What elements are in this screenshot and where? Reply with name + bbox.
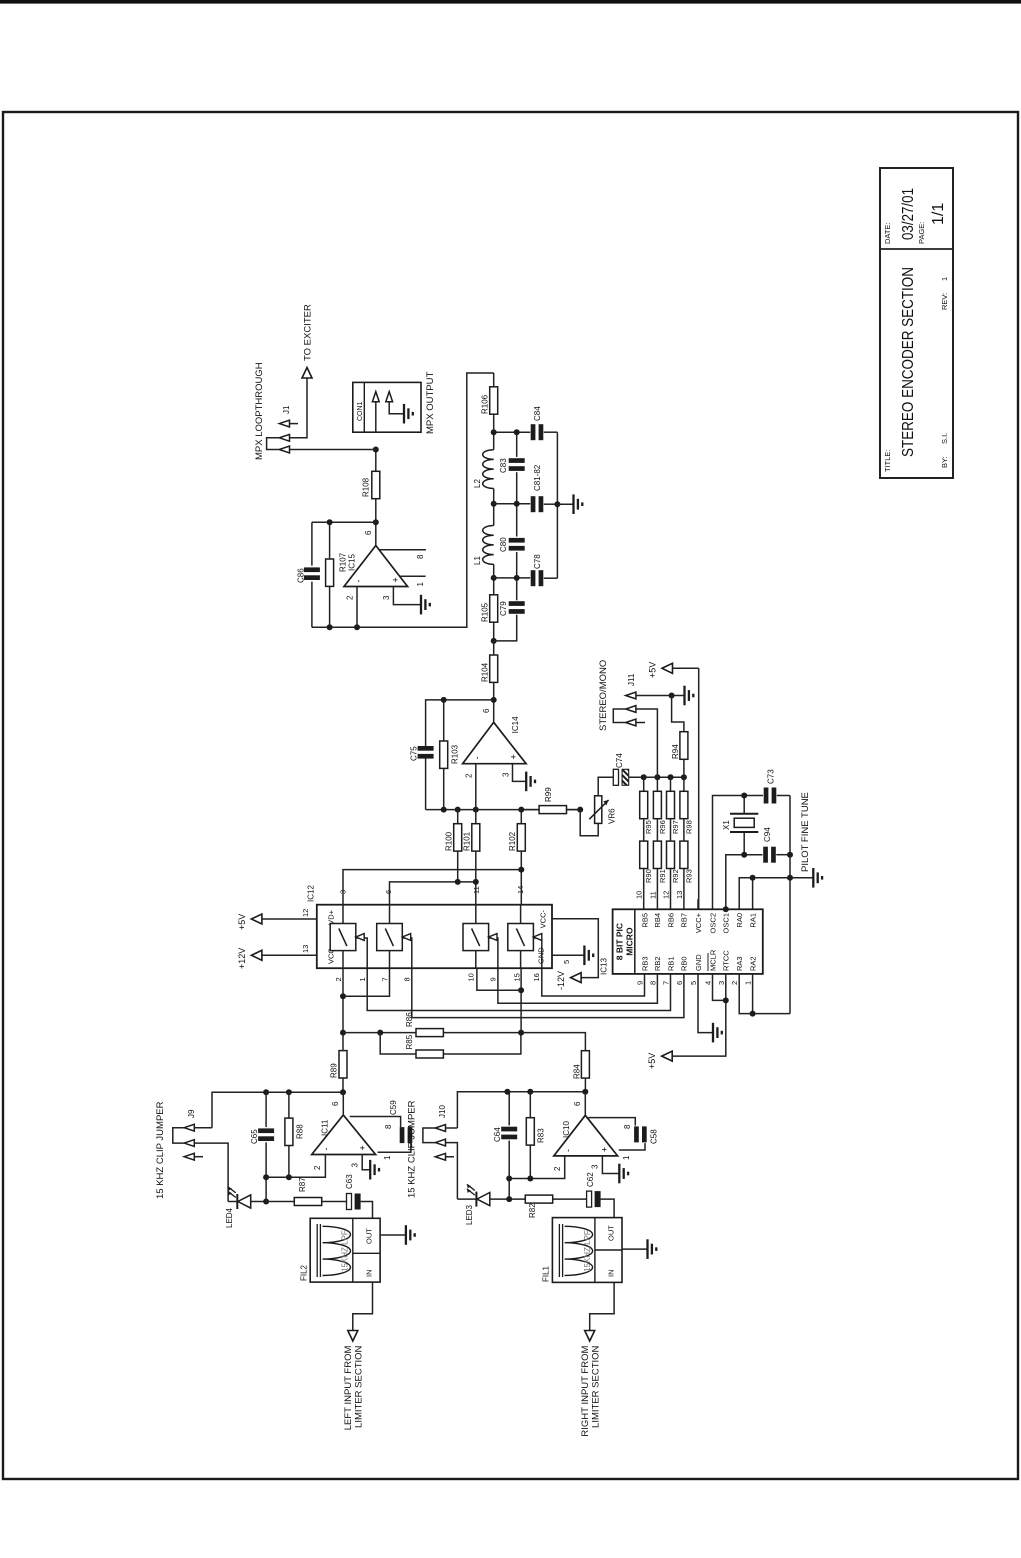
svg-text:16: 16 [532, 973, 541, 981]
wire J9 pin2 to LED row [194, 1143, 228, 1201]
svg-text:6: 6 [364, 530, 373, 535]
resistor R98 [683, 777, 685, 791]
svg-text:1: 1 [744, 981, 753, 985]
svg-text:15 KHZ CLIP JUMPER: 15 KHZ CLIP JUMPER [155, 1101, 166, 1199]
svg-text:J10: J10 [438, 1105, 447, 1118]
svg-text:15KHZ LPF: 15KHZ LPF [341, 1230, 350, 1272]
junction R107 right [327, 519, 333, 525]
svg-text:IC14: IC14 [511, 716, 520, 733]
wire IC10 pin 3 [602, 1156, 619, 1174]
IC13 box [613, 909, 763, 974]
svg-text:14: 14 [516, 886, 525, 894]
FIL1 coil icon [558, 1224, 560, 1277]
svg-text:OUT: OUT [365, 1228, 374, 1244]
svg-text:TO EXCITER: TO EXCITER [303, 304, 314, 361]
svg-text:C75: C75 [410, 746, 419, 761]
svg-text:R88: R88 [296, 1124, 305, 1139]
wire VR6 to C74 rail [598, 777, 613, 796]
wire IC14 pin 3 [513, 764, 527, 782]
wire summing to R84 [521, 1033, 585, 1051]
svg-text:R90: R90 [644, 869, 653, 883]
wire IC14 pin 2 [475, 764, 477, 810]
junction node D [491, 638, 497, 644]
FIL1 filter box [552, 1218, 622, 1283]
resistor R107 [329, 587, 331, 628]
capacitor C94 [763, 847, 768, 863]
wire +5V rail to IC13 [698, 668, 700, 909]
inductor L2 [493, 489, 495, 504]
wire IC14 feedback rail right [426, 700, 494, 746]
resistor R87 [294, 1198, 321, 1206]
wire IC11 pin 3 [362, 1155, 370, 1170]
wire OSC2 to crystal node [713, 796, 764, 910]
svg-text:DATE:: DATE: [883, 222, 892, 244]
ground crystal section [812, 868, 814, 888]
svg-text:6: 6 [331, 1101, 340, 1106]
wire IC10 pin 1 stub [619, 1143, 645, 1150]
LED4 [236, 1194, 238, 1209]
svg-text:IC12: IC12 [307, 885, 316, 902]
wire CON1 pin2 to ground [389, 402, 404, 414]
wire R82 to C62 [553, 1198, 587, 1200]
svg-text:R84: R84 [573, 1064, 582, 1079]
junction C64 rail [504, 1089, 510, 1095]
wire RA0 RA1 ground line [739, 878, 813, 910]
svg-text:X1: X1 [722, 820, 731, 830]
wire IC14 inverting rail [426, 809, 581, 811]
wire IC11 pin 1 stub [378, 1143, 411, 1153]
resistor R85 [380, 1033, 415, 1054]
svg-text:1: 1 [383, 1155, 392, 1160]
switch SW3 stubs [475, 951, 477, 969]
svg-text:3: 3 [591, 1164, 600, 1169]
svg-text:RB0: RB0 [680, 956, 689, 971]
resistor R83 [529, 1145, 531, 1178]
svg-text:RTCC: RTCC [722, 950, 731, 971]
wire inv rail to LED row [265, 1177, 267, 1201]
junction pin2 rail [354, 624, 360, 630]
svg-text:13: 13 [675, 891, 684, 899]
svg-text:R94: R94 [671, 744, 680, 759]
svg-text:R104: R104 [481, 662, 490, 682]
wire C75 left lead [425, 758, 427, 809]
wire FIL2 IN to input arrow [353, 1282, 373, 1331]
svg-text:9: 9 [636, 981, 645, 985]
wire IC15 output to node [375, 522, 377, 545]
junction R100 riser [455, 879, 461, 885]
svg-text:RB3: RB3 [640, 956, 649, 971]
resistor R89 [342, 1049, 344, 1051]
svg-text:LEFT INPUT FROM: LEFT INPUT FROM [343, 1346, 354, 1431]
wire IC12 pin15 line [520, 968, 522, 1032]
svg-text:RB7: RB7 [680, 913, 689, 928]
svg-text:R87: R87 [298, 1177, 307, 1192]
svg-text:03/27/01: 03/27/01 [900, 188, 917, 240]
svg-text:8 BIT PIC: 8 BIT PIC [615, 923, 625, 960]
junction ladder rail [654, 774, 660, 780]
resistor R99 [521, 809, 539, 811]
wire IC15 pin 3 to ground [393, 587, 421, 605]
junction IC10 out R84 [582, 1089, 588, 1095]
svg-text:RB4: RB4 [653, 913, 662, 928]
svg-text:L1: L1 [473, 556, 482, 565]
svg-text:FIL2: FIL2 [300, 1264, 309, 1281]
wire inv rail to LED row right [508, 1179, 510, 1200]
connector J1 pin 1 [279, 420, 289, 427]
capacitor C59 [400, 1127, 405, 1143]
wire IC11 output rail [212, 1092, 343, 1128]
analog switch SW2 [377, 924, 403, 951]
svg-text:C63: C63 [345, 1174, 354, 1189]
wire RTCC pin 3 to +5V [672, 974, 726, 1056]
svg-text:MPX OUTPUT: MPX OUTPUT [425, 372, 436, 434]
svg-text:+5V: +5V [237, 914, 247, 930]
svg-text:LED4: LED4 [225, 1207, 234, 1228]
junction node C [491, 575, 497, 581]
junction pin11 R101 [473, 879, 479, 885]
capacitor C73 [764, 788, 769, 804]
resistor R91 [656, 819, 658, 841]
junction summing node [518, 1030, 524, 1036]
connector CON1 box [353, 382, 421, 432]
wire shunt rail [494, 615, 517, 641]
wire RB0 pin 6 to SW2 control [403, 938, 684, 1018]
svg-text:R105: R105 [481, 602, 490, 622]
wire IC15 pin 8 stub [379, 549, 426, 551]
junction crystal node F [741, 793, 747, 799]
wire IC12 VCC- to -12V [552, 919, 598, 978]
svg-text:C86: C86 [297, 568, 306, 583]
analog switch SW1 [330, 924, 356, 951]
svg-text:C94: C94 [763, 827, 772, 842]
inductor L1 [493, 564, 495, 578]
capacitor C81-82 [531, 496, 536, 512]
svg-text:L2: L2 [473, 479, 482, 488]
wire RA2 pin 1 [753, 974, 790, 1014]
svg-text:R86: R86 [405, 1012, 414, 1027]
svg-text:4: 4 [704, 981, 713, 985]
svg-text:8: 8 [384, 1124, 393, 1129]
capacitor C78 [531, 570, 536, 586]
svg-text:R89: R89 [330, 1063, 339, 1078]
svg-text:C65: C65 [250, 1129, 259, 1144]
svg-text:RA0: RA0 [735, 913, 744, 928]
switch SW2 stubs [389, 951, 391, 969]
connector J10 pin 3 [435, 1153, 445, 1160]
junction LED row inv link [263, 1199, 269, 1205]
junction pin14 R102 [518, 867, 524, 873]
junction crystal node G [741, 852, 747, 858]
ground IC13 [712, 1023, 714, 1043]
junction R88 rail [286, 1089, 292, 1095]
top page bar [0, 0, 1021, 4]
title block box [880, 168, 953, 478]
svg-text:IC15: IC15 [348, 554, 357, 571]
junction J11 ground node [669, 693, 675, 699]
wire IC10 pin 8 stub [588, 1118, 635, 1126]
svg-text:OSC2: OSC2 [708, 913, 717, 933]
junction node B [491, 501, 497, 507]
svg-text:C84: C84 [533, 406, 542, 421]
svg-text:-: - [563, 1149, 573, 1152]
CON1 pin 1 [372, 392, 379, 402]
junction ground stem [787, 875, 793, 881]
crystal X1 [730, 813, 758, 815]
wire IC12 pin3 pin14 net [343, 870, 521, 905]
svg-text:R82: R82 [528, 1203, 537, 1218]
junction node A [491, 429, 497, 435]
svg-text:STEREO/MONO: STEREO/MONO [598, 660, 609, 731]
op-amp IC15 [344, 546, 408, 587]
svg-text:C64: C64 [493, 1127, 502, 1142]
wire OSC1 to crystal [726, 855, 763, 910]
svg-text:RB5: RB5 [640, 913, 649, 928]
wire LED row [228, 1201, 237, 1203]
resistor R103 [443, 769, 445, 810]
svg-text:LIMITER SECTION: LIMITER SECTION [591, 1345, 602, 1427]
svg-text:R96: R96 [658, 820, 667, 834]
svg-text:9: 9 [489, 977, 498, 981]
svg-text:STEREO ENCODER SECTION: STEREO ENCODER SECTION [900, 267, 917, 457]
wire C63 to FIL2 [361, 1202, 373, 1219]
power -12V arrow [571, 973, 582, 983]
svg-text:2: 2 [730, 981, 739, 985]
svg-text:+: + [509, 754, 519, 759]
svg-text:5: 5 [689, 981, 698, 985]
junction RA2 RA3 [750, 1011, 756, 1017]
svg-text:2: 2 [465, 773, 474, 778]
jumper bracket J11 [613, 709, 625, 723]
svg-text:R97: R97 [671, 820, 680, 834]
wire IC10 output rail [457, 1092, 585, 1128]
svg-text:J11: J11 [627, 673, 636, 686]
svg-text:3: 3 [717, 981, 726, 985]
resistor R95 [643, 777, 645, 791]
ground FIL1 out [622, 1248, 648, 1250]
junction shunt node B [514, 501, 520, 507]
capacitor C84 [531, 424, 536, 440]
svg-text:BY:: BY: [940, 456, 949, 468]
svg-text:R101: R101 [463, 831, 472, 851]
svg-text:1: 1 [940, 277, 949, 281]
capacitor C74 trimmer [613, 769, 618, 785]
wire resistor ladder rail [629, 776, 684, 778]
junction R83 inv [527, 1176, 533, 1182]
capacitor C62 [587, 1191, 592, 1207]
connector J1 pin 3 [279, 446, 289, 453]
svg-text:-: - [354, 580, 364, 583]
switch SW1 stubs [342, 951, 344, 969]
ground J11 [683, 686, 685, 706]
svg-text:2: 2 [346, 595, 355, 600]
ground IC11 pin3 [369, 1160, 371, 1180]
junction C64 inv [506, 1176, 512, 1182]
capacitor C65 [258, 1136, 274, 1141]
svg-text:+12V: +12V [237, 948, 247, 969]
junction MCLR RTCC [723, 997, 729, 1003]
wire J10 pin2 to LED row [446, 1143, 458, 1200]
svg-text:6: 6 [482, 708, 491, 713]
capacitor C64 [501, 1135, 517, 1140]
wire R87 to C63 [322, 1201, 347, 1203]
svg-text:8: 8 [416, 554, 425, 559]
svg-text:IC11: IC11 [321, 1119, 330, 1136]
svg-text:OSC1: OSC1 [722, 913, 731, 933]
svg-text:C62: C62 [586, 1172, 595, 1187]
power +5V arrow IC12 pin12 [262, 918, 317, 920]
svg-text:C59: C59 [389, 1100, 398, 1115]
op-amp IC14 [463, 722, 526, 763]
resistor R92 [670, 819, 672, 841]
ground IC15 pin3 [420, 595, 422, 615]
jumper bracket J10 [423, 1128, 435, 1143]
svg-text:CON1: CON1 [357, 401, 364, 421]
svg-text:10: 10 [467, 973, 476, 981]
wire IC15 inverting feedback rail [312, 373, 494, 627]
junction R99 top [518, 807, 524, 813]
junction VR6 node [577, 807, 583, 813]
junction pin2 pin7 tie [340, 993, 346, 999]
junction R86 top [340, 1030, 346, 1036]
svg-text:R85: R85 [405, 1034, 414, 1049]
svg-text:IC13: IC13 [600, 958, 609, 975]
junction OSC1 pin [723, 906, 729, 912]
junction shunt node C [514, 575, 520, 581]
analog switch SW3 [463, 924, 489, 951]
svg-text:VD+: VD+ [327, 909, 336, 924]
capacitor C83 [509, 466, 525, 471]
svg-text:C78: C78 [533, 554, 542, 569]
connector J1 pin 2 [279, 434, 289, 441]
svg-text:IN: IN [607, 1270, 616, 1278]
resistor R104 [493, 682, 495, 700]
wire IC15 pin 2 [356, 587, 358, 628]
svg-text:C83: C83 [499, 458, 508, 473]
wire filter ground rail [556, 432, 558, 578]
svg-text:R92: R92 [671, 869, 680, 883]
svg-text:10: 10 [635, 891, 644, 899]
svg-text:R106: R106 [481, 394, 490, 414]
wire IC12 pin2 line [342, 968, 344, 1050]
capacitor C79 [509, 609, 525, 614]
svg-text:S.I.: S.I. [940, 433, 949, 444]
junction shunt node A [514, 429, 520, 435]
wire C62 to FIL1 [601, 1199, 615, 1218]
ground CON1 [403, 404, 405, 424]
svg-text:15 KHZ CLIP JUMPER: 15 KHZ CLIP JUMPER [407, 1100, 418, 1198]
resistor R88 [288, 1146, 290, 1178]
svg-text:12: 12 [662, 891, 671, 899]
resistor R100 [457, 851, 459, 882]
svg-text:MPX LOOPTHROUGH: MPX LOOPTHROUGH [254, 362, 265, 460]
wire IC15 feedback node rail [312, 521, 376, 523]
wire IC12 pin10 tie [477, 968, 521, 990]
svg-text:C74: C74 [615, 753, 624, 768]
resistor R102 [520, 851, 522, 869]
svg-text:MCLR: MCLR [708, 949, 717, 971]
svg-text:6: 6 [675, 981, 684, 985]
power +5V arrow at J11 [662, 663, 673, 673]
svg-text:+5V: +5V [647, 1053, 657, 1069]
FIL2 coil icon [316, 1224, 318, 1277]
svg-text:R108: R108 [362, 477, 371, 497]
wire J11 pin1 to ground [636, 695, 685, 697]
svg-text:3: 3 [502, 772, 511, 777]
power +12V arrow IC12 pin13 [262, 954, 317, 956]
svg-text:+5V: +5V [648, 662, 658, 678]
wire J11 pin2 to ladder rail [636, 709, 658, 777]
svg-text:3: 3 [351, 1163, 360, 1168]
svg-text:7: 7 [662, 981, 671, 985]
junction ladder rail [641, 774, 647, 780]
svg-text:RB2: RB2 [653, 956, 662, 971]
junction ladder rail [668, 774, 674, 780]
arrow LEFT INPUT [348, 1331, 358, 1342]
svg-text:IC10: IC10 [562, 1121, 571, 1138]
svg-text:-12V: -12V [556, 971, 566, 990]
resistor R108 [375, 498, 377, 522]
svg-text:7: 7 [381, 977, 390, 981]
junction R107 left [327, 624, 333, 630]
analog switch SW4 [508, 924, 534, 951]
wire IC11 inverting rail [266, 1155, 325, 1178]
connector J11 pin 1 [626, 692, 636, 699]
svg-text:-: - [472, 757, 482, 760]
resistor R84 [581, 1051, 589, 1078]
wire to filter ground [557, 503, 573, 505]
svg-text:VCC-: VCC- [539, 910, 548, 929]
svg-text:1/1: 1/1 [930, 203, 947, 225]
svg-text:1: 1 [622, 1155, 631, 1160]
junction R103 right [441, 697, 447, 703]
svg-text:R91: R91 [658, 869, 667, 883]
junction R103 left [441, 807, 447, 813]
svg-text:IN: IN [365, 1270, 374, 1278]
wire LED row right [457, 1198, 476, 1200]
resistor R101 [475, 851, 477, 882]
junction C65 inv [263, 1174, 269, 1180]
resistor R86 [343, 1032, 417, 1034]
wire R94 to J11 node [672, 696, 684, 732]
junction LED row inv link right [506, 1196, 512, 1202]
svg-text:FIL1: FIL1 [542, 1265, 551, 1282]
wire IC14 output [493, 700, 495, 722]
svg-text:REV:: REV: [940, 293, 949, 310]
svg-text:2: 2 [313, 1165, 322, 1170]
junction pin10 pin15 [518, 987, 524, 993]
resistor R90 [643, 819, 645, 841]
svg-text:-: - [321, 1148, 331, 1151]
svg-text:3: 3 [382, 595, 391, 600]
resistor R94 [680, 732, 688, 760]
junction C65 rail [263, 1089, 269, 1095]
svg-text:GND: GND [537, 947, 546, 964]
resistor R106 [493, 414, 495, 432]
ground FIL2 out [380, 1234, 406, 1236]
svg-text:11: 11 [648, 891, 657, 899]
ground filter [572, 494, 574, 514]
resistor R97 [670, 777, 672, 791]
wire IC11 pin 8 stub [350, 1117, 401, 1128]
wire RB3 pin 9 to SW4 control [534, 938, 645, 996]
connector J9 pin 3 [184, 1153, 194, 1160]
connector J9 pin 2 [184, 1140, 194, 1147]
svg-text:RA3: RA3 [735, 956, 744, 971]
svg-text:13: 13 [301, 945, 310, 953]
wire IC10 inverting rail [509, 1156, 565, 1179]
svg-text:RIGHT INPUT FROM: RIGHT INPUT FROM [580, 1346, 591, 1437]
junction R88 inv [286, 1174, 292, 1180]
